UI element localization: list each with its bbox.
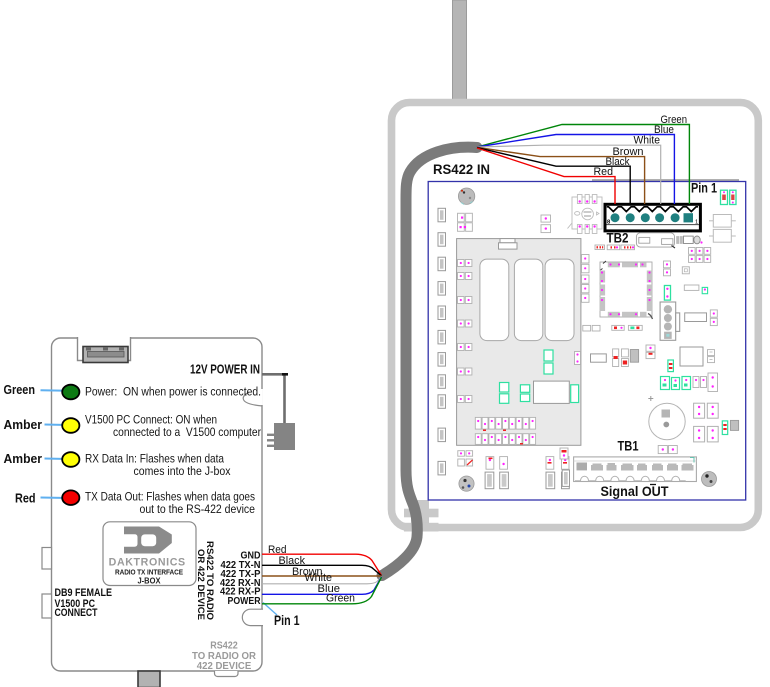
terminal block TB2: [605, 204, 700, 231]
buzzer: [649, 403, 685, 439]
big white rect right: [680, 347, 703, 366]
capacitor pair 2: [500, 457, 508, 470]
left column pads: [438, 208, 446, 475]
bottom fan: black wire: [262, 565, 382, 576]
bottom fan: green wire: [262, 577, 382, 604]
top fan: black wire: [477, 148, 630, 204]
mounting hole top-left: [458, 188, 474, 204]
thick gray interconnect cable: [382, 147, 477, 575]
svg-text:Red: Red: [594, 166, 614, 178]
capacitor pair 1: [486, 457, 494, 470]
teal pads inside module: [500, 350, 554, 403]
module header row 1: [475, 417, 535, 429]
bottom fan: red wire: [262, 554, 382, 575]
J-box top notch: [78, 337, 131, 361]
small pads left of TB1: [560, 448, 568, 459]
plus mark: [648, 396, 653, 401]
svg-text:TB2: TB2: [607, 231, 629, 246]
power plug block: [274, 423, 295, 450]
capacitor pair 3: [546, 457, 554, 470]
module top tab: [500, 239, 515, 243]
small parts right of relay: [676, 236, 679, 244]
svg-text:comes into the J-box: comes into the J-box: [134, 464, 232, 478]
svg-text:Green: Green: [326, 593, 355, 605]
pads top-center: [541, 215, 551, 222]
leader line to amber LED 1: [45, 424, 69, 427]
teal resistor pads right of Pin 1: [721, 190, 728, 204]
module edge pad pairs: [458, 260, 472, 403]
top fan: green wire: [477, 125, 689, 205]
terminal block TB1: [574, 457, 697, 482]
2x3 pad cluster below relay: [689, 248, 711, 263]
top RJ connector on J-box: [83, 347, 128, 363]
leader line to red LED: [41, 497, 69, 500]
teal pad and slug right: [722, 421, 727, 435]
enclosure (rounded gray box): [392, 103, 759, 528]
bottom connector stub: [138, 671, 160, 687]
svg-text:CONNECT: CONNECT: [55, 607, 98, 619]
QFP chip U1: [600, 261, 653, 319]
svg-text:RS422 IN: RS422 IN: [433, 162, 490, 177]
svg-text:out to the RS-422 device: out to the RS-422 device: [140, 502, 256, 516]
top fan: white wire: [477, 145, 661, 204]
power jack recess notch on right edge: [260, 389, 263, 405]
module slot 1: [480, 259, 509, 341]
svg-text:TB1: TB1: [618, 439, 639, 454]
pads below module: [458, 451, 473, 466]
small tab under bottom edge: [215, 671, 239, 677]
three striped pads below TB2: [595, 245, 635, 250]
pads below QFP: [583, 325, 591, 331]
Daktronics logo box: [103, 522, 196, 586]
bottom fan: brown wire: [262, 575, 382, 577]
large module (gray block): [457, 239, 581, 446]
12V power wire: [262, 374, 285, 423]
macron artifact over U: [650, 484, 656, 486]
pads right of buzzer (2x2 tall): [694, 403, 719, 442]
red LED: [62, 490, 79, 505]
bottom fan: white wire: [262, 577, 382, 584]
pads near top-left: [458, 213, 473, 231]
antenna cable stub at top: [453, 0, 467, 101]
svg-text:Pin 1: Pin 1: [274, 613, 300, 628]
cable gland at enclosure bottom: [404, 500, 439, 532]
leader line to amber LED 2: [45, 458, 69, 461]
white rects right of connector: [684, 285, 699, 290]
white box inside module bottom: [534, 381, 570, 403]
green LED: [62, 385, 79, 400]
svg-text:White: White: [634, 135, 661, 147]
svg-text:1: 1: [695, 220, 698, 226]
svg-text:connected to a V1500 computer: connected to a V1500 computer: [113, 425, 261, 439]
relay footprint below TB2: [636, 233, 674, 247]
bottom fan: blue wire: [262, 577, 382, 595]
Pin 1 callout (bottom): [263, 603, 277, 616]
svg-text:RADIO TX INTERFACE: RADIO TX INTERFACE: [115, 568, 183, 577]
mounting hole bottom-right: [702, 472, 717, 487]
svg-text:Power: ON when power is conne: Power: ON when power is connected.: [85, 385, 261, 399]
amber LED 1: [62, 418, 79, 433]
mid lower parts: [591, 354, 607, 362]
two relay squares with leads (right column): [713, 215, 731, 243]
crystal Y1: [664, 286, 670, 301]
power plug prongs: [267, 434, 274, 436]
top fan: red wire: [477, 148, 615, 204]
mounting hole bottom-left: [459, 476, 474, 491]
pad row above buzzer: [661, 377, 691, 390]
leader line to green LED: [41, 389, 69, 392]
amber LED 2: [62, 452, 79, 467]
2-pad part right of TB1 label: [658, 446, 667, 454]
module slot 2: [514, 259, 542, 341]
svg-text:OR 422 DEVICE: OR 422 DEVICE: [195, 549, 206, 621]
module slot 3: [545, 259, 574, 341]
pads left of QFP: [582, 255, 590, 303]
PCB outline: [428, 182, 746, 501]
svg-text:Pin 1: Pin 1: [691, 181, 717, 196]
svg-text:Red: Red: [15, 491, 36, 506]
top fan: brown wire: [477, 147, 645, 204]
4-pin connector J2: [660, 302, 680, 340]
module header row 2: [475, 434, 535, 445]
J-box body (Radio TX Interface J-Box outline): [52, 338, 263, 671]
svg-text:Amber: Amber: [4, 417, 43, 432]
top fan: blue wire: [477, 135, 674, 205]
svg-text:POWER: POWER: [228, 596, 262, 607]
svg-text:Signal OUT: Signal OUT: [601, 484, 669, 500]
finger-slot notch on right edge near Pin 1: [242, 609, 263, 625]
left DB9 tab lower: [42, 594, 52, 618]
svg-text:Amber: Amber: [4, 451, 43, 466]
svg-text:12V POWER IN: 12V POWER IN: [190, 363, 260, 377]
svg-text:Green: Green: [4, 382, 36, 397]
gray trace line above board top edge: [592, 179, 739, 181]
capacitor pair 4: [562, 457, 570, 470]
svg-text:422 DEVICE: 422 DEVICE: [197, 661, 252, 672]
svg-text:J-BOX: J-BOX: [138, 577, 162, 586]
left DB9 tab upper: [42, 548, 52, 570]
Daktronics D logo: [124, 527, 172, 554]
small sq right column: [682, 267, 689, 274]
6-pin IC footprint left of TB2: [568, 195, 603, 234]
